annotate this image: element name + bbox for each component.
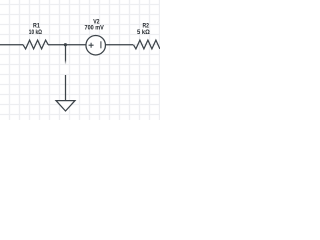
svg-text:700 mV: 700 mV — [85, 25, 105, 32]
svg-text:5 kΩ: 5 kΩ — [137, 29, 150, 36]
wire — [48, 44, 86, 46]
resistor R1 — [23, 40, 48, 49]
wire — [105, 44, 133, 46]
wire — [0, 44, 23, 46]
resistor R2 — [133, 40, 160, 49]
svg-text:10 kΩ: 10 kΩ — [29, 29, 42, 36]
wire — [65, 45, 67, 65]
node junction — [64, 43, 67, 46]
voltage source V2 — [86, 35, 106, 55]
ground — [56, 75, 75, 111]
